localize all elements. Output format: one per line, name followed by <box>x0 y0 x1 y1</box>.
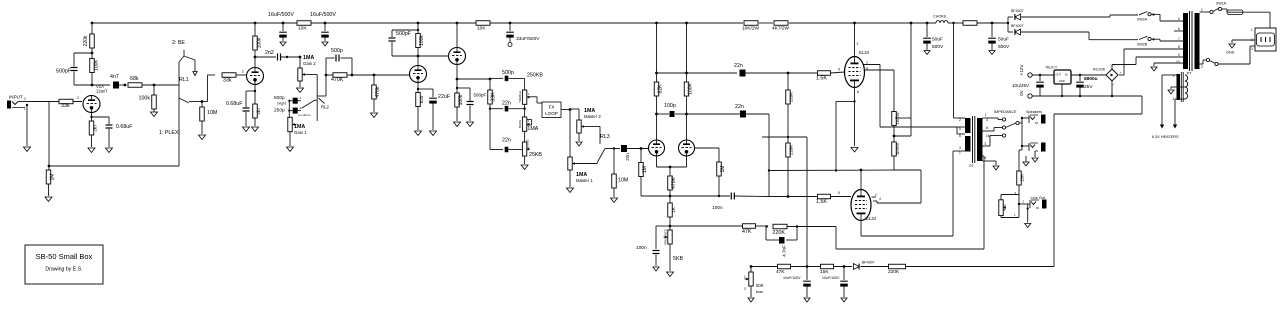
wire B+ rail segment 5 <box>948 22 963 24</box>
wire screen B+ drop <box>910 23 912 136</box>
wire +12V to regulator <box>1032 74 1054 76</box>
wire 470k leak gnd <box>373 99 375 112</box>
svg-text:220K: 220K <box>789 145 794 155</box>
node 220K upper grid <box>787 72 790 75</box>
wire 100k V4 gnd <box>456 107 458 121</box>
svg-text:50K: 50K <box>756 283 764 288</box>
node 220K NFB left <box>766 225 768 227</box>
wire B+ rail segment 1 <box>92 22 476 24</box>
capacitor 250p bright <box>293 106 302 114</box>
capacitor 500pF V4 <box>467 93 487 105</box>
ground master 1 <box>567 188 574 193</box>
ground 16uF no1 <box>280 42 286 46</box>
node bass top <box>523 108 525 110</box>
wire bright caps right <box>298 101 301 111</box>
potentiometer 5KB PRESENCE <box>664 229 684 262</box>
svg-text:820: 820 <box>419 95 424 103</box>
svg-text:MIDDLE: MIDDLE <box>525 139 529 150</box>
jack speaker 2 <box>1029 143 1046 152</box>
node line out tap <box>1018 200 1030 206</box>
ground 10M PI <box>611 198 618 203</box>
svg-text:+: + <box>1120 71 1122 75</box>
svg-text:EL34: EL34 <box>859 50 870 55</box>
node speaker line <box>1021 117 1023 119</box>
wire master1 column <box>569 109 571 157</box>
wire screen node <box>893 126 895 143</box>
svg-text:10uF/100V: 10uF/100V <box>822 276 840 280</box>
svg-text:GND: GND <box>1226 51 1235 55</box>
resistor 1K/5W screen lower <box>892 142 900 156</box>
svg-text:SB-50 Small Box: SB-50 Small Box <box>36 252 93 261</box>
diode BF4007 bias <box>854 261 875 270</box>
wire grid line lower <box>788 196 817 198</box>
wire 10M to ground <box>201 121 203 134</box>
ground line out <box>1025 224 1031 228</box>
transformer OT core <box>973 116 975 163</box>
wire 100p left <box>657 113 670 115</box>
svg-text:4: 4 <box>985 156 987 160</box>
label 500p bright <box>274 95 285 101</box>
wire EL34 upper cathode <box>855 88 860 147</box>
svg-text:500pF: 500pF <box>56 69 72 75</box>
wire PT pin8 to bridge <box>1119 49 1183 75</box>
svg-text:10K: 10K <box>477 26 486 32</box>
svg-text:PRESENCE: PRESENCE <box>664 229 668 245</box>
wire B+ rail segment 6 <box>977 22 1008 24</box>
svg-text:4K7/2W: 4K7/2W <box>772 26 790 32</box>
ground 1M <box>45 197 52 202</box>
label RL1 <box>179 77 189 83</box>
potentiometer 1MA Gain 2 <box>298 55 316 81</box>
node rail 16uF no1 <box>282 22 285 25</box>
wire PI out B vertical <box>687 113 741 115</box>
node 220k/100k junction <box>91 48 94 58</box>
ground gain 2 <box>297 88 304 93</box>
capacitor 500p bright <box>293 96 302 104</box>
node rectifier join <box>1007 22 1009 24</box>
svg-text:Speakers: Speakers <box>1026 110 1042 114</box>
wire bass to middle <box>524 131 526 142</box>
svg-text:5: 5 <box>959 127 961 131</box>
svg-text:100k: 100k <box>257 37 263 48</box>
resistor 47K NFB <box>742 224 756 235</box>
resistor 2k7 stage2 <box>253 104 261 118</box>
label bright <box>278 101 286 105</box>
svg-text:2: 2 <box>242 70 244 74</box>
svg-text:100k: 100k <box>94 60 100 71</box>
svg-text:22n: 22n <box>734 63 743 69</box>
node B+ V4 <box>456 22 459 25</box>
wire PI cathodes <box>657 156 687 167</box>
svg-text:220K: 220K <box>773 230 786 236</box>
node V3 plate <box>417 55 420 58</box>
label 16uF/500V no2 <box>310 12 336 18</box>
wire bias line left <box>751 266 777 268</box>
node 33uF tap <box>509 22 512 25</box>
wire EL34 upper pin4 screen <box>864 67 895 112</box>
ground bias cap 1 <box>804 298 810 302</box>
svg-text:47K: 47K <box>776 269 785 275</box>
resistor 820 V3 cathode <box>416 93 424 107</box>
svg-text:6: 6 <box>959 134 961 138</box>
switch SW1A <box>1210 2 1227 14</box>
wire heater out 2 <box>1175 99 1185 127</box>
wire regulator out <box>1071 74 1106 76</box>
diode BF4007 no2 <box>1011 24 1024 35</box>
wire 1M PI <box>640 149 642 163</box>
capacitor 16uF/500V no1 <box>279 23 287 41</box>
ground tone stack <box>521 165 528 170</box>
svg-text:100n: 100n <box>636 245 647 251</box>
svg-text:10u/25V: 10u/25V <box>1012 83 1030 88</box>
node presence NFB <box>669 225 672 228</box>
wire to 0.68uF V1A <box>92 117 110 124</box>
svg-text:50uF: 50uF <box>998 37 1009 43</box>
wire 33k to V1B grid <box>236 70 247 76</box>
node PI plate A <box>655 113 658 116</box>
svg-text:LOOP: LOOP <box>545 111 558 116</box>
resistor 1.5K grid stopper upper <box>816 71 831 82</box>
svg-text:16uF/500V: 16uF/500V <box>268 12 294 18</box>
wire plate line <box>92 84 110 86</box>
svg-text:0.68uF: 0.68uF <box>116 124 133 130</box>
wire bright caps left join <box>288 100 293 118</box>
resistor 100k V3 plate <box>416 34 425 48</box>
node B+ V1A <box>91 22 94 25</box>
switch SW2B <box>1137 36 1155 46</box>
node PI tail <box>669 166 672 169</box>
node PI tie A <box>655 72 658 75</box>
svg-text:1.5K: 1.5K <box>816 76 827 82</box>
tube V1B cathode wire <box>254 85 256 105</box>
wire OT left stub 127 <box>957 126 965 128</box>
wire V3 plate supply <box>417 23 419 33</box>
svg-text:470K: 470K <box>331 77 344 83</box>
label 1MA Master 2 <box>584 108 601 119</box>
svg-text:100K: 100K <box>688 83 694 95</box>
wire EL34 upper pin1 <box>864 61 958 128</box>
wire 68k to relay <box>142 84 179 86</box>
resistor 10M RL1 <box>200 107 218 121</box>
svg-text:GND: GND <box>1059 79 1065 83</box>
capacitor 4.7nF NFB <box>766 227 797 257</box>
wire 4n7 to 68k <box>119 84 125 86</box>
wire 22n tone 2 right <box>508 149 522 151</box>
wire bias pot gnd <box>750 286 752 297</box>
label PT OT <box>969 164 974 168</box>
node tail bus <box>669 195 672 198</box>
label OT pins left <box>959 118 961 155</box>
svg-text:bright: bright <box>278 101 286 105</box>
svg-text:500pF: 500pF <box>474 93 487 98</box>
label PT pins right <box>1201 8 1203 69</box>
wire 1.5K lower to EL34 <box>831 191 852 197</box>
svg-text:5: 5 <box>838 68 840 72</box>
label 2: BE <box>172 40 185 46</box>
svg-text:16uF/500V: 16uF/500V <box>310 12 336 18</box>
svg-text:33k: 33k <box>223 78 232 84</box>
svg-text:3: 3 <box>744 287 746 291</box>
wire to V3 grid <box>352 74 410 76</box>
resistor 100k V4 cathode <box>455 93 464 107</box>
wire gain2 wiper <box>307 75 318 100</box>
wire 1M to ground <box>48 184 50 196</box>
svg-text:2: BE: 2: BE <box>172 40 185 46</box>
wire tail <box>669 167 671 176</box>
svg-text:3: 3 <box>1251 47 1253 51</box>
svg-text:Gain 1: Gain 1 <box>294 130 307 135</box>
box title block <box>25 245 103 284</box>
ground heater tap <box>1151 67 1157 71</box>
ground 10M RL1 <box>199 135 206 140</box>
node tone input <box>489 78 492 81</box>
wire 10M PI gnd <box>613 188 615 197</box>
svg-text:22uF: 22uF <box>438 94 451 100</box>
svg-text:6: 6 <box>1178 27 1180 31</box>
capacitor 10uF/100V no2 <box>822 267 848 298</box>
node 50uF no1 <box>926 22 929 25</box>
svg-text:220K: 220K <box>888 269 900 275</box>
wire EL34 lower top pin <box>769 170 894 190</box>
wire PT pin9 to bridge <box>1112 57 1183 65</box>
resistor 100k stage2 plate <box>253 36 263 50</box>
tube V3 12ax7 <box>410 66 427 83</box>
terminal heater 1 <box>1160 125 1164 129</box>
node y170 tap <box>768 169 770 171</box>
svg-text:500p: 500p <box>274 95 285 101</box>
capacitor 22n PI input <box>621 145 630 161</box>
switch RL3 <box>597 141 609 164</box>
wire NFB to 47K <box>670 225 742 227</box>
wire treble to bass <box>524 104 526 117</box>
label RL3 <box>600 134 610 140</box>
node 6800u gnd <box>1079 95 1081 97</box>
wire RL2 common drop <box>316 100 318 121</box>
resistor 1M PI right <box>717 162 726 176</box>
svg-text:1: 1 <box>24 107 26 111</box>
tube V1A 12ax7 <box>83 84 108 113</box>
svg-text:470k: 470k <box>375 86 381 97</box>
resistor 100K PI <box>684 82 693 96</box>
wire 0.68uF to ground <box>108 129 110 147</box>
wire PI plate A <box>656 96 658 140</box>
resistor 1K presence feed <box>668 196 676 217</box>
svg-text:Gain 2: Gain 2 <box>303 61 316 66</box>
node rail 16uF no2 <box>324 22 327 25</box>
label 1: PLEXI <box>159 130 180 136</box>
wire divider to 47B <box>1001 195 1019 200</box>
svg-text:0V: 0V <box>1019 89 1024 96</box>
svg-text:78L2CT: 78L2CT <box>1045 66 1057 70</box>
ground 2k7 V1A <box>88 148 95 153</box>
tube V5 phase inverter B <box>679 140 695 156</box>
wire bias source riser <box>1054 96 1142 267</box>
node PI tie B <box>685 72 688 75</box>
svg-text:PT: PT <box>1187 72 1192 76</box>
resistor 220K bias upper <box>786 90 794 104</box>
transformer PT left winding <box>1183 13 1188 69</box>
wire OT B+ drop <box>954 23 966 118</box>
label PT <box>1187 72 1192 76</box>
resistor 47K bias <box>776 264 791 275</box>
svg-text:1MA: 1MA <box>527 126 538 132</box>
svg-text:500p: 500p <box>331 48 343 54</box>
wire 470K body <box>326 74 333 76</box>
wire PI B supply <box>686 23 688 82</box>
wire PI A supply <box>656 23 658 82</box>
label 6.3V HEATERS <box>1152 135 1179 139</box>
resistor 220K NFB <box>773 224 788 236</box>
wire speaker jack link <box>1022 118 1029 146</box>
svg-text:220k: 220k <box>83 35 89 46</box>
wire B+ rail segment 2 <box>490 22 743 24</box>
wire 22uF gnd <box>432 104 434 131</box>
node stage2 cathode <box>254 90 256 92</box>
svg-text:FX: FX <box>549 105 555 110</box>
svg-text:2: 2 <box>857 42 859 46</box>
svg-text:8: 8 <box>1178 45 1180 49</box>
wire diode1 to SW2A <box>1021 15 1139 17</box>
wire 2n2 to gain2 <box>281 56 301 58</box>
wire 15K to divider <box>1015 185 1020 218</box>
wire 220K upper lead <box>787 73 789 90</box>
node B+ V3 <box>417 22 420 25</box>
ground master 2 <box>576 142 582 146</box>
svg-text:47K: 47K <box>742 229 752 235</box>
wire gain2 top <box>299 57 301 68</box>
svg-text:8: 8 <box>857 90 859 94</box>
svg-text:CHOKE: CHOKE <box>933 15 947 19</box>
transformer PT right winding <box>1195 13 1200 69</box>
resistor 1.5K grid stopper lower <box>816 194 831 205</box>
svg-text:BF4007: BF4007 <box>862 261 875 265</box>
switch RL1 arrow <box>193 72 197 76</box>
svg-text:SW2B: SW2B <box>1137 42 1148 46</box>
wire plate to 2n2 <box>255 56 276 58</box>
svg-text:3: 3 <box>985 142 987 146</box>
resistor 1K/5W screen upper <box>892 112 900 126</box>
wire PI grid B <box>695 148 720 162</box>
ground speaker return <box>1023 156 1029 166</box>
svg-text:SW2A: SW2A <box>1137 18 1148 22</box>
ground 0.68uF stage2 <box>243 127 250 132</box>
wire OT secondary tap2 <box>983 128 1003 132</box>
label heater pins <box>1173 74 1175 101</box>
svg-text:5: 5 <box>1178 17 1180 21</box>
resistor 82K PI <box>654 82 663 96</box>
svg-text:Master 2: Master 2 <box>584 114 601 119</box>
wire NFB riser <box>836 156 984 249</box>
svg-text:BASS: BASS <box>518 120 522 128</box>
svg-text:Drawing by E.S.: Drawing by E.S. <box>45 267 82 273</box>
svg-text:1M: 1M <box>50 174 56 181</box>
svg-text:1: 1 <box>1201 8 1203 12</box>
node 470k grid leak <box>373 74 376 77</box>
resistor 220k <box>83 34 94 48</box>
svg-text:2n2: 2n2 <box>265 50 274 56</box>
svg-text:500p: 500p <box>502 70 514 76</box>
wire V1A cathode <box>91 113 93 122</box>
wire master2 wiper to RL3 <box>586 127 601 142</box>
svg-text:INPUT: INPUT <box>9 95 23 100</box>
wire 22uF V3 <box>418 89 433 97</box>
node 1M tap <box>48 165 51 168</box>
capacitor 0.68uF stage2 <box>226 101 250 111</box>
wire 500pF fb bottom <box>392 42 418 56</box>
node gain2 top <box>299 56 302 59</box>
wire master2 gnd <box>578 133 580 141</box>
svg-text:2: 2 <box>1201 65 1203 69</box>
svg-text:2: 2 <box>1173 97 1175 101</box>
label Speakers <box>1026 110 1042 114</box>
svg-text:12ax7: 12ax7 <box>96 89 108 94</box>
svg-text:1: 1 <box>866 61 868 65</box>
wire EL34 lower pin1 <box>872 193 878 197</box>
capacitor 50uF/500V no2 <box>988 23 1010 50</box>
node bias pot tap <box>750 265 753 268</box>
wire 500pF to plate node <box>74 72 92 86</box>
svg-text:33k: 33k <box>61 103 70 109</box>
capacitor 22n tone 2 <box>502 138 511 153</box>
wire PT pin6 stub <box>1174 30 1183 32</box>
svg-text:22n: 22n <box>625 153 630 161</box>
svg-text:500V: 500V <box>998 44 1010 50</box>
node EL34 upper plate rail <box>853 22 856 25</box>
wire input to grid line <box>25 101 82 103</box>
wire OT secondary bottom <box>983 161 997 165</box>
potentiometer 1MA BASS <box>518 117 539 132</box>
switch RL1 plexi contact <box>179 98 202 103</box>
svg-text:1M: 1M <box>642 166 648 173</box>
label pin 2 V1A grid <box>77 96 79 100</box>
resistor 470k grid leak <box>372 85 381 99</box>
switch impedance <box>1002 118 1019 137</box>
switch RL1 BE contact <box>179 50 195 72</box>
tube V4 12ax7 <box>449 48 466 65</box>
node EL34 cathode branch <box>853 100 855 102</box>
wire 0.68uF stage2 gnd <box>245 112 247 126</box>
svg-text:10K: 10K <box>298 26 307 32</box>
wire bias rail <box>762 136 807 138</box>
svg-text:BF4007: BF4007 <box>1011 24 1024 28</box>
transformer OT primary lower <box>965 136 971 152</box>
wire EL34 lower cathode <box>861 151 965 236</box>
capacitor 500p treble <box>502 70 514 81</box>
wire 500p right <box>341 58 353 75</box>
capacitor 33uF/500V <box>506 23 540 42</box>
svg-text:OUT: OUT <box>1056 73 1062 77</box>
wire 100k to plate node <box>254 50 256 68</box>
svg-text:IN: IN <box>1065 73 1068 77</box>
wire V4 cathode <box>456 65 458 94</box>
node FX out <box>569 108 572 111</box>
svg-text:100k: 100k <box>419 35 425 46</box>
label IMPEDANCE <box>994 110 1017 114</box>
node cathode V1A <box>90 116 92 118</box>
node bias filter 1 <box>806 265 809 268</box>
wire 22n tone 2 left <box>490 109 503 150</box>
label on-off-on <box>299 113 311 117</box>
wire regulator gnd <box>1061 84 1063 96</box>
wire line out feed <box>1019 146 1022 172</box>
wire 500pF tap <box>457 88 470 101</box>
wire 500pF V4 gnd <box>469 106 471 122</box>
wire 470k leak <box>373 75 375 85</box>
wire 22n to PI grid <box>627 148 649 150</box>
node B+ stage2 <box>254 22 257 25</box>
wire to 470K <box>317 58 326 96</box>
wire gain2 bottom to ground <box>299 81 301 87</box>
